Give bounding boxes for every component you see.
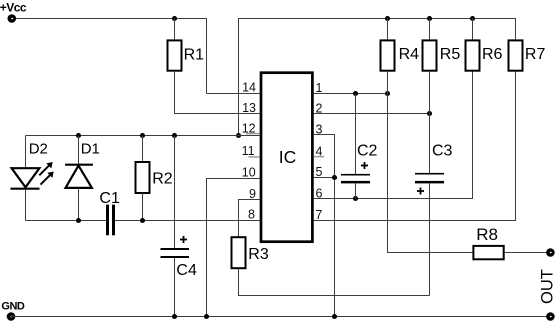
svg-text:R1: R1 [184,46,205,63]
svg-text:14: 14 [242,80,256,94]
wire R4 bottom to R8 [388,71,474,253]
junction rail drop / pin 12 row [236,133,241,138]
junction row12/C4 [172,133,177,138]
pin 12 stub [246,133,260,135]
junction row8/D1 [76,218,81,223]
junction pin2/C3-R5 [427,111,432,116]
node row pin 8 wire (right of C1) [115,220,260,222]
svg-text:R3: R3 [248,246,269,263]
resistor R7 [509,40,523,70]
svg-text:R4: R4 [399,46,420,63]
svg-text:1: 1 [316,81,323,95]
wire pin 7 to R7 [314,71,516,221]
wire GND rail [11,316,550,318]
wire pin 3 drop to ground [314,135,335,317]
resistor R3 [232,237,246,268]
wire C2 bottom [355,183,357,198]
resistor R2 [136,136,150,221]
capacitor C1 [106,205,115,236]
junction GND/pin10 drop [204,314,209,319]
svg-text:11: 11 [242,144,255,158]
wire pin 10 to ground [207,179,260,317]
junction pin6/C2 [353,196,358,201]
junction row12/D1 [76,133,81,138]
GND terminal right [546,312,555,321]
svg-text:R7: R7 [525,46,546,63]
capacitor C3 [415,173,444,195]
GND terminal left [7,312,16,321]
svg-text:R6: R6 [482,46,503,63]
svg-text:7: 7 [315,208,322,222]
junction row12/R2 [140,133,145,138]
junction rail/R6 [470,16,475,21]
svg-text:C4: C4 [176,262,197,279]
svg-text:C3: C3 [432,142,453,159]
svg-text:D1: D1 [81,140,100,157]
wire C4 top [174,136,176,249]
capacitor C4 [161,236,190,258]
svg-text:13: 13 [242,101,256,115]
resistor R5 [423,19,437,114]
svg-text:10: 10 [242,166,256,180]
wire pin 6 to R6 [314,71,473,199]
wire C3 top [429,114,431,174]
IC U1 body [261,73,312,242]
svg-text:GND: GND [1,301,25,313]
wire R1 top [174,19,176,41]
wire C4 bottom [174,258,176,317]
svg-text:5: 5 [316,165,323,179]
junction row8/R2 [140,218,145,223]
svg-text:D2: D2 [29,140,48,157]
svg-text:OUT: OUT [539,269,557,304]
junction GND/C4 [172,314,177,319]
wire pin 1 [314,93,388,95]
+Vcc terminal [8,14,17,23]
svg-text:8: 8 [248,207,255,221]
svg-text:+Vcc: +Vcc [0,0,27,14]
svg-text:R2: R2 [152,170,173,187]
wire Vcc right rail [239,19,516,136]
node row pin 8 wire (left of C1) [26,220,107,222]
capacitor C2 [341,162,370,183]
resistor R8 [473,246,503,259]
junction pin1/C2 [353,91,358,96]
resistor R6 [466,19,480,71]
diode D1 [65,136,93,221]
svg-text:C1: C1 [99,190,120,207]
resistor R1 [168,40,182,70]
pin 4 stub [314,156,325,158]
svg-text:R5: R5 [440,46,461,63]
junction rail/R1 [172,16,177,21]
wire C2 top [355,94,357,175]
OUT terminal [546,248,555,257]
wire R3 bottom to C3 bottom [239,269,430,296]
svg-text:C2: C2 [357,142,378,159]
pin 11 stub [249,156,260,158]
wire pin 14 [207,93,260,95]
wire pin 2 [314,113,430,115]
wire Vcc left rail down to pin 14 [16,19,207,94]
svg-text:IC: IC [279,147,297,167]
junction GND/pin3 drop [332,314,337,319]
wire C3 bottom [429,183,431,295]
node row pin 12 wire [26,135,260,137]
junction pin1/R4 [385,91,390,96]
svg-text:R8: R8 [476,225,498,244]
LED D2 [11,136,54,221]
wire R1 bottom to pin 13 [175,71,260,114]
wire R8 to OUT terminal [504,252,547,254]
junction rail/R5 [427,16,432,21]
wire pin 9 to R3 [239,200,260,238]
junction pin5/pin3 drop [332,175,337,180]
wire pin 5 [314,177,335,179]
resistor R4 [381,19,395,71]
junction rail/R4 [385,16,390,21]
